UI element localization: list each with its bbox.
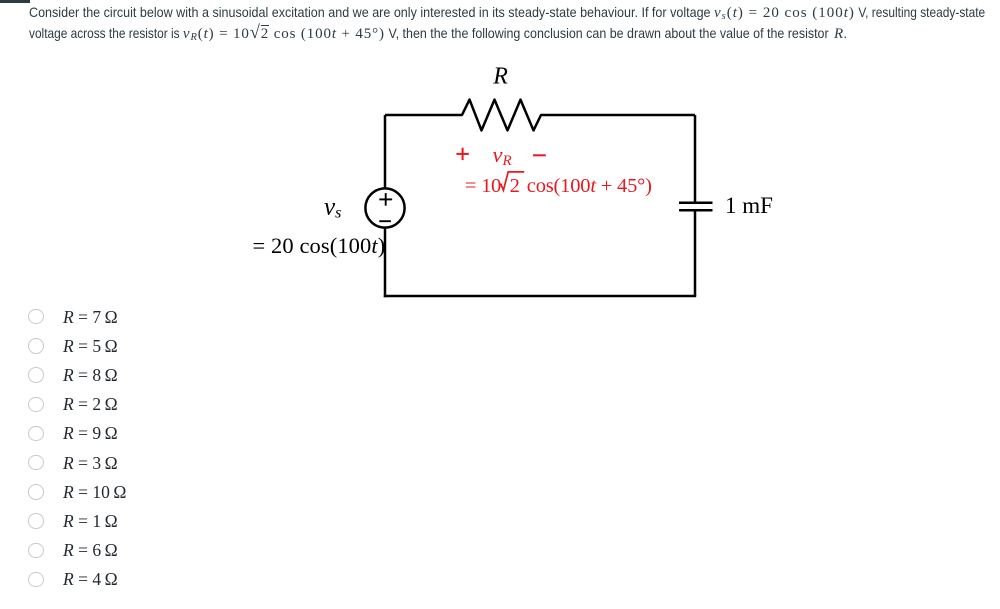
svg-text:vs: vs <box>324 194 341 222</box>
svg-text:1 mF: 1 mF <box>725 193 773 218</box>
svg-text:10: 10 <box>481 175 501 197</box>
svg-text:vR: vR <box>493 142 512 169</box>
svg-text:cos(100t + 45°): cos(100t + 45°) <box>527 175 652 197</box>
svg-text:= 20 cos(100t): = 20 cos(100t) <box>253 233 386 258</box>
svg-text:2: 2 <box>510 175 520 197</box>
svg-text:=: = <box>465 175 476 197</box>
svg-text:R: R <box>492 64 508 90</box>
